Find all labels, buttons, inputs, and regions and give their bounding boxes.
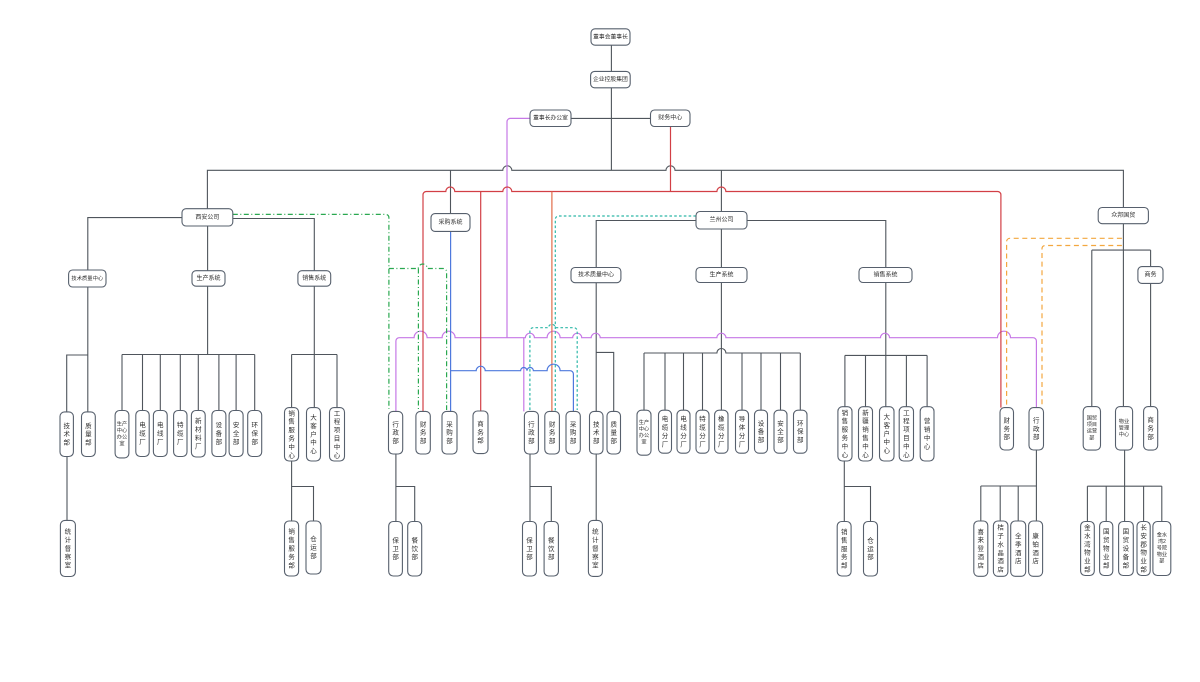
wire drop 环保部xa	[254, 355, 256, 411]
wire drop 商务	[1150, 250, 1152, 267]
wire 生产系统lz bus	[644, 349, 800, 354]
wire group trunk	[610, 88, 612, 171]
dept 行政部-1	[389, 411, 403, 454]
svg-text:财务部: 财务部	[549, 419, 556, 445]
wire drop 环保部lz	[799, 353, 801, 410]
leaf 喜来登酒店	[974, 521, 988, 576]
svg-text:橡缆分厂: 橡缆分厂	[718, 414, 725, 448]
dept 商务部-3	[1144, 407, 1158, 451]
svg-text:兰州公司: 兰州公司	[709, 216, 733, 224]
svg-text:营销中心: 营销中心	[924, 416, 931, 450]
wire branch->仓运部xa	[292, 487, 314, 522]
svg-text:质量部: 质量部	[611, 419, 618, 445]
wire 兰州->销售系统	[747, 221, 886, 268]
svg-text:销售服务部: 销售服务部	[288, 526, 295, 569]
dept 环保部-lz	[794, 410, 808, 453]
svg-text:财务中心: 财务中心	[658, 114, 682, 122]
wire 技术部lz->统计督察室	[595, 454, 597, 520]
dept 橡缆分厂	[715, 410, 728, 453]
svg-text:董事会董事长: 董事会董事长	[593, 32, 628, 40]
svg-text:国贸设备部: 国贸设备部	[1123, 527, 1130, 569]
wire 商务->商务部	[1150, 283, 1152, 406]
svg-text:商务: 商务	[1144, 270, 1156, 278]
svg-text:电线厂: 电线厂	[157, 420, 164, 446]
wire 众邦国贸->物业管理中心	[1122, 224, 1124, 407]
dept 特缆分厂	[696, 410, 709, 453]
wire 销售系统xa->大客户中心	[313, 286, 315, 407]
svg-text:生产系统: 生产系统	[196, 274, 220, 282]
svg-text:康铂酒店: 康铂酒店	[1032, 531, 1039, 565]
wire hotels bus	[981, 485, 1037, 487]
wire 生产系统lz->橡缆分厂	[720, 283, 722, 411]
dept 物业管理中心	[1116, 407, 1133, 451]
wire 销售系统xa bus	[292, 354, 337, 356]
svg-text:统计督察室: 统计督察室	[592, 526, 599, 569]
dept 工程项目中心-xa	[330, 408, 345, 461]
svg-text:财务部: 财务部	[1004, 415, 1011, 441]
wire 西安->生产系统	[207, 226, 209, 271]
svg-text:众邦国贸: 众邦国贸	[1111, 211, 1135, 219]
relation violet left run ->行政部-1	[396, 331, 507, 411]
svg-text:仓运部: 仓运部	[867, 535, 874, 561]
node 生产系统-xa	[192, 271, 225, 287]
wire drop 金水湾物业部	[1086, 486, 1088, 521]
dept 大客户中心-xa	[307, 408, 321, 461]
relation red bus 财务部-1 ->财务部-3	[423, 187, 1001, 411]
dept 设备部-xa	[212, 411, 226, 457]
svg-text:全季酒店: 全季酒店	[1015, 531, 1022, 565]
wire drop 营销中心	[926, 355, 928, 406]
dept 电线分厂	[677, 410, 690, 453]
svg-text:保卫部: 保卫部	[392, 535, 399, 561]
svg-text:物业管理中心: 物业管理中心	[1119, 417, 1130, 438]
leaf 销售服务部-lz	[837, 522, 851, 577]
svg-text:财务部: 财务部	[420, 419, 427, 445]
wire 众邦 bus	[1092, 249, 1151, 251]
wire 物业管理中心->国贸设备部	[1124, 450, 1126, 521]
dept 财务部-3	[1000, 408, 1014, 450]
relation 兰州公司 teal feed ->财务部-2	[555, 216, 696, 411]
svg-text:销售服务中心: 销售服务中心	[288, 408, 295, 459]
dept 技术部-xa	[60, 412, 73, 457]
leaf 保卫部-1	[389, 522, 403, 577]
leaf 统计督察室-lz	[588, 520, 602, 576]
relation violet right run ->行政部-3	[507, 331, 1036, 407]
wire 兰州->技术质量中心	[596, 221, 696, 268]
wire 生产系统xa drop	[207, 286, 209, 354]
leaf 仓运部-lz	[864, 522, 878, 577]
svg-text:喜来登酒店: 喜来登酒店	[978, 526, 985, 569]
dept 导体分厂	[736, 410, 749, 453]
wire 销售系统lz bus	[845, 354, 927, 356]
dept 电缆分厂	[659, 410, 672, 453]
node 采购系统	[431, 214, 470, 232]
leaf 金水湾2号院物业部	[1153, 522, 1171, 576]
leaf 国贸设备部	[1119, 522, 1134, 576]
svg-text:技术部: 技术部	[63, 420, 70, 446]
wire drop 销售服务中心lz	[844, 355, 846, 406]
svg-text:销售系统: 销售系统	[873, 270, 897, 278]
svg-text:仓运部: 仓运部	[310, 534, 317, 560]
svg-text:安全部: 安全部	[777, 418, 784, 444]
svg-text:销售服务部: 销售服务部	[841, 527, 848, 570]
svg-text:长安郡物业部: 长安郡物业部	[1140, 522, 1147, 573]
wire bus->采购系统	[450, 170, 452, 213]
svg-text:桔子水晶酒店: 桔子水晶酒店	[997, 522, 1004, 573]
node 技术质量中心-xa	[69, 270, 106, 287]
wire branch->质量部lz	[596, 352, 614, 411]
relation 众邦国贸 orange ->财务部-3	[1007, 238, 1122, 407]
leaf 金水湾物业部	[1081, 522, 1095, 576]
svg-text:新材料厂: 新材料厂	[195, 416, 202, 450]
wire drop 特缆分厂	[702, 353, 704, 410]
leaf 餐饮部-2	[544, 522, 558, 577]
svg-text:商务部: 商务部	[1147, 415, 1154, 441]
wire bus->兰州公司	[720, 170, 722, 211]
leaf 全季酒店	[1011, 521, 1026, 576]
wire branch->技术部xa	[67, 355, 88, 412]
wire 西安->技术质量中心	[88, 218, 182, 270]
wire drop 新疆销售中心	[865, 355, 867, 406]
dept 大客户中心-lz	[880, 407, 895, 461]
node 企业控股集团	[591, 71, 631, 87]
dept 特缆厂	[174, 411, 187, 457]
wire 兰州->生产系统	[720, 229, 722, 268]
node 销售系统-xa	[298, 271, 331, 287]
wire drop 销售服务中心xa	[291, 355, 293, 408]
wire drop 电线厂	[159, 355, 161, 411]
relation blue run ->采购部-2	[451, 364, 574, 411]
wire 行政部1->保卫部	[395, 454, 397, 522]
wire drop 金水湾2号院物业部	[1161, 486, 1163, 521]
root 董事会董事长	[591, 29, 630, 45]
node 生产系统-lz	[696, 268, 747, 283]
relation 采购系统->采购部-1 blue	[450, 231, 452, 411]
wire drop 桔子水晶酒店	[999, 486, 1001, 521]
node 商务	[1138, 267, 1163, 284]
svg-text:西安公司: 西安公司	[195, 213, 219, 221]
wire branch->餐饮部2	[530, 487, 551, 522]
wire drop 安全部lz	[780, 353, 782, 410]
wire 生产系统xa bus	[122, 354, 255, 356]
wire 行政部3->康铂酒店	[1035, 450, 1037, 521]
leaf 国贸物业部	[1100, 522, 1113, 576]
wire 销售服务中心xa->销售服务部	[291, 461, 293, 521]
leaf 康铂酒店	[1029, 521, 1043, 576]
svg-text:企业控股集团: 企业控股集团	[593, 75, 628, 83]
wire drop 生产中心办公室lz	[643, 353, 645, 410]
wire root->group	[610, 45, 612, 71]
dept 国贸项目运营部	[1083, 407, 1100, 451]
wire 技术质量中心lz->技术部	[595, 283, 597, 412]
wire drop 导体分厂	[741, 353, 743, 410]
dept 安全部-lz	[774, 410, 787, 453]
svg-text:商务部: 商务部	[477, 418, 484, 444]
wire 物业 bus	[1087, 485, 1161, 487]
wire branch->餐饮部1	[396, 487, 415, 522]
wire drop 全季酒店	[1017, 486, 1019, 521]
node 技术质量中心-lz	[571, 268, 621, 283]
dept 采购部-2	[566, 411, 580, 454]
wire drop 工程项目中心lz	[905, 355, 907, 406]
wire link 董事长办公室	[571, 117, 611, 119]
dept 工程项目中心-lz	[899, 407, 913, 461]
node 董事长办公室	[530, 110, 571, 127]
relation teal run 行政部-2 ->采购部-2	[530, 324, 577, 410]
leaf 餐饮部-1	[408, 522, 422, 577]
relation green drop ->财务部-1	[417, 269, 419, 411]
svg-text:统计督察室: 统计督察室	[65, 526, 72, 569]
wire drop 设备部xa	[218, 355, 220, 411]
dept 财务部-2	[545, 411, 560, 454]
svg-text:餐饮部: 餐饮部	[548, 535, 555, 561]
wire link 财务中心	[611, 117, 650, 119]
svg-text:餐饮部: 餐饮部	[411, 535, 418, 561]
svg-text:电缆厂: 电缆厂	[139, 420, 146, 446]
dept 质量部-xa	[82, 412, 96, 457]
wire drop 特缆厂	[179, 355, 181, 411]
dept 生产中心办公室-xa	[115, 411, 129, 458]
svg-text:技术部: 技术部	[593, 419, 600, 445]
dept 安全部-xa	[229, 411, 243, 457]
wire drop 电缆厂	[142, 355, 144, 411]
node 众邦国贸	[1098, 208, 1148, 224]
dept 销售服务中心-xa	[285, 408, 299, 461]
svg-text:设备部: 设备部	[758, 418, 765, 444]
svg-text:生产系统: 生产系统	[709, 270, 733, 278]
svg-text:大客户中心: 大客户中心	[884, 412, 891, 455]
dept 销售服务中心-lz	[838, 407, 852, 461]
wire 销售系统lz->大客户中心	[885, 283, 887, 407]
dept 新材料厂	[191, 411, 205, 458]
svg-text:董事长办公室: 董事长办公室	[533, 114, 568, 122]
leaf 长安郡物业部	[1137, 522, 1150, 576]
svg-text:环保部: 环保部	[251, 421, 258, 446]
leaf 统计督察室-xa	[60, 520, 75, 576]
wire main bus	[207, 166, 1123, 209]
svg-text:环保部: 环保部	[797, 419, 804, 444]
dept 质量部-lz	[607, 411, 621, 454]
wire drop 电线分厂	[683, 353, 685, 410]
svg-text:保卫部: 保卫部	[526, 535, 533, 561]
svg-text:行政部: 行政部	[392, 419, 399, 445]
wire drop 喜来登酒店	[980, 486, 982, 521]
relation 西安公司 green feed ->行政部-1	[233, 214, 389, 409]
wire drop 电缆分厂	[664, 353, 666, 410]
relation violet drop ->行政部-2	[523, 338, 525, 412]
leaf 销售服务部-xa	[285, 521, 299, 576]
wire 行政部2->保卫部	[529, 454, 531, 522]
svg-text:采购部: 采购部	[570, 419, 577, 445]
svg-text:特缆分厂: 特缆分厂	[699, 414, 706, 448]
relation 财务中心 red feed	[670, 126, 672, 191]
dept 电线厂	[153, 411, 167, 457]
dept 新疆销售中心	[859, 407, 873, 461]
leaf 仓运部-xa	[306, 521, 321, 574]
svg-text:销售服务中心: 销售服务中心	[842, 407, 849, 458]
wire drop 新材料厂	[197, 355, 199, 411]
svg-text:特缆厂: 特缆厂	[177, 420, 184, 446]
wire drop 国贸项目运营部	[1091, 250, 1093, 407]
relation red drop ->商务部-1	[480, 192, 482, 412]
relation 众邦国贸 orange ->行政部-3	[1042, 246, 1122, 408]
relation 董事长办公室->行政部 violet feed	[507, 118, 530, 337]
svg-text:技术质量中心: 技术质量中心	[71, 274, 103, 282]
leaf 桔子水晶酒店	[993, 521, 1008, 576]
wire 技术质量中心xa->质量部	[87, 287, 89, 412]
svg-text:设备部: 设备部	[216, 420, 223, 446]
dept 财务部-1	[416, 411, 430, 454]
svg-text:电线分厂: 电线分厂	[680, 414, 687, 448]
svg-text:安全部: 安全部	[233, 420, 240, 446]
dept 商务部-1	[473, 411, 488, 454]
svg-text:质量部: 质量部	[85, 420, 92, 446]
wire branch->仓运部lz	[844, 487, 870, 522]
wire 技术部xa->统计督察室	[66, 457, 68, 521]
relation green run ->采购部-1	[389, 264, 447, 410]
wire drop 设备部lz	[760, 353, 762, 410]
node 销售系统-lz	[859, 268, 912, 283]
relation red drop ->财务部-2	[551, 192, 553, 412]
dept 生产中心办公室-lz	[637, 410, 651, 455]
wire drop 安全部xa	[235, 355, 237, 411]
dept 采购部-1	[442, 411, 457, 454]
svg-text:大客户中心: 大客户中心	[310, 412, 317, 455]
wire drop 工程项目中心xa	[336, 355, 338, 408]
svg-text:行政部: 行政部	[1033, 415, 1040, 441]
node 兰州公司	[696, 212, 747, 230]
svg-text:金水湾物业部: 金水湾物业部	[1084, 522, 1091, 573]
wire drop 生产中心办公室xa	[121, 355, 123, 411]
svg-text:国贸物业部: 国贸物业部	[1103, 527, 1110, 569]
svg-text:采购系统: 采购系统	[438, 218, 462, 226]
dept 行政部-3	[1029, 408, 1044, 450]
svg-text:新疆销售中心: 新疆销售中心	[862, 407, 869, 458]
svg-text:技术质量中心: 技术质量中心	[578, 271, 614, 279]
wire drop 国贸物业部	[1105, 486, 1107, 521]
dept 设备部-lz	[755, 410, 768, 453]
dept 营销中心	[920, 407, 934, 461]
wire 销售服务中心lz->销售服务部	[843, 461, 845, 522]
node 西安公司	[182, 209, 233, 226]
wire 西安->销售系统	[233, 219, 314, 271]
leaf 保卫部-2	[523, 522, 537, 577]
svg-text:销售系统: 销售系统	[302, 274, 326, 282]
svg-text:行政部: 行政部	[528, 419, 535, 445]
svg-text:采购部: 采购部	[446, 419, 453, 445]
dept 行政部-2	[524, 411, 538, 454]
dept 技术部-lz	[590, 411, 604, 454]
svg-text:电缆分厂: 电缆分厂	[662, 414, 669, 448]
node 财务中心	[651, 110, 691, 127]
dept 环保部-xa	[248, 411, 262, 457]
wire drop 长安郡物业部	[1143, 486, 1145, 521]
dept 电缆厂	[136, 411, 149, 457]
